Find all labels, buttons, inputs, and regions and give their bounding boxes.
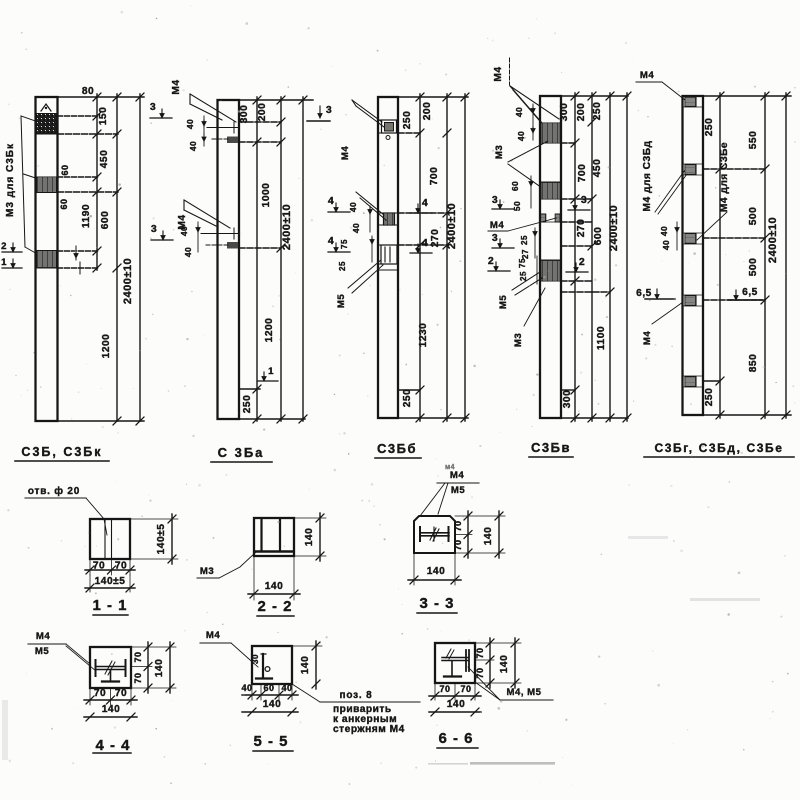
embedded plate 2 post C3Bg [685, 165, 696, 175]
svg-text:250: 250 [704, 118, 715, 137]
dimension column 60/60/1190 post C3B [96, 94, 98, 270]
svg-text:4: 4 [328, 235, 334, 247]
svg-text:300: 300 [562, 390, 573, 409]
dim 140+-5 section 1-1 right [130, 518, 178, 520]
svg-text:70: 70 [93, 561, 105, 572]
svg-text:300: 300 [239, 105, 250, 124]
dimension column B post C3Ba [280, 97, 282, 421]
section cut 4 left upper post C3Bb [328, 211, 350, 213]
svg-text:250: 250 [592, 102, 603, 121]
leader mid anchor post C3Bb [356, 192, 384, 215]
svg-text:250: 250 [402, 111, 413, 130]
svg-text:70: 70 [475, 667, 485, 678]
section cut 4 right upper post C3Bb [410, 212, 432, 214]
leader M5 post C3Bv [512, 272, 540, 290]
anchor end plate mid post C3Ba [227, 242, 238, 249]
svg-text:600: 600 [593, 227, 604, 246]
dim 140 section 6-6 right [475, 642, 521, 644]
section 3-3 body [414, 516, 455, 553]
mark 6,5 left post C3Bg [645, 298, 675, 300]
svg-text:200: 200 [422, 102, 433, 121]
extension lines post C3Bv right [561, 95, 628, 97]
svg-text:6,5: 6,5 [636, 288, 652, 299]
svg-text:60: 60 [263, 683, 274, 693]
beam section 6-6 [442, 657, 468, 659]
svg-text:40: 40 [185, 119, 195, 129]
svg-text:М4: М4 [206, 630, 220, 641]
svg-text:С3Бв: С3Бв [531, 440, 571, 455]
mini dims 40/40 post C3Bb [369, 206, 371, 232]
dimension column C post C3Bv [609, 93, 611, 421]
svg-text:75: 75 [340, 239, 349, 249]
dimension column A post C3Bv [574, 93, 576, 421]
section cut 4 right lower post C3Bb [410, 252, 432, 254]
svg-text:М4: М4 [36, 631, 50, 642]
hole f20 lines [104, 519, 106, 559]
svg-text:6 - 6: 6 - 6 [438, 730, 473, 747]
section 6-6 body [435, 643, 475, 683]
svg-text:40: 40 [179, 226, 189, 236]
anchor channel lower post C3Bb [381, 245, 397, 264]
dim 140 section 5-5 bottom [242, 711, 298, 713]
section 4-4 body [90, 647, 131, 688]
dimension column C post C3Bg [785, 93, 787, 418]
svg-text:60: 60 [510, 181, 520, 191]
svg-text:270: 270 [430, 229, 441, 248]
svg-text:2400±10: 2400±10 [608, 205, 620, 251]
channel section 5-5 [262, 654, 264, 678]
anchor box mid post C3Bb [384, 213, 395, 225]
dim 140 section 3-3 right [455, 515, 505, 517]
svg-text:140: 140 [447, 699, 466, 710]
svg-text:80: 80 [82, 86, 94, 97]
svg-text:140±5: 140±5 [95, 576, 126, 587]
section cut 1 bottom post C3Ba [258, 380, 278, 382]
mini dims 40/40 post C3Bg [676, 222, 678, 250]
svg-text:140: 140 [263, 699, 282, 710]
svg-text:2: 2 [488, 255, 494, 267]
section cut 4 left lower post C3Bb [328, 251, 350, 253]
svg-text:С 3Ба: С 3Ба [218, 445, 265, 460]
hatched band 1 post C3Bv [541, 123, 561, 143]
dimension column C post C3Bb [464, 94, 466, 421]
svg-text:1200: 1200 [264, 318, 275, 343]
svg-text:3: 3 [492, 194, 498, 206]
svg-text:70: 70 [133, 651, 143, 662]
svg-text:150: 150 [98, 107, 109, 126]
svg-text:50: 50 [512, 201, 522, 211]
dimension column D post C3Bv [626, 93, 628, 421]
svg-text:1000: 1000 [261, 183, 272, 208]
section cut 3 mark between posts [307, 120, 330, 122]
dimension column A post C3Bb [419, 94, 421, 421]
svg-text:М4 для С3Бд: М4 для С3Бд [642, 140, 653, 211]
section 5-5 body [252, 646, 292, 684]
leader poz 8 section 5-5 [292, 684, 320, 702]
svg-text:450: 450 [592, 159, 603, 178]
svg-text:60: 60 [60, 164, 70, 175]
mini dims 75/25 lower post C3Bv [536, 256, 538, 284]
post C3B lifting loop notch [41, 104, 51, 111]
svg-text:отв. ф 20: отв. ф 20 [28, 485, 80, 497]
dim 140 section 5-5 right [292, 645, 322, 647]
svg-text:40: 40 [516, 131, 526, 141]
svg-text:60: 60 [59, 198, 69, 209]
svg-text:М4: М4 [450, 470, 464, 481]
svg-text:550: 550 [748, 131, 759, 150]
svg-text:200: 200 [257, 103, 268, 122]
embedded plate 5 post C3Bg [685, 377, 696, 387]
post C3Ba outline [218, 100, 240, 419]
svg-text:700: 700 [429, 167, 440, 186]
svg-text:6,5: 6,5 [742, 287, 758, 298]
svg-text:27: 27 [521, 249, 530, 259]
svg-text:75: 75 [518, 258, 527, 268]
svg-text:70: 70 [115, 688, 127, 699]
svg-text:450: 450 [99, 150, 110, 169]
dim 140 section 3-3 bottom [413, 553, 415, 585]
svg-text:С3Бб: С3Бб [377, 441, 417, 456]
svg-text:70: 70 [453, 520, 463, 531]
svg-text:М4: М4 [493, 66, 504, 81]
svg-text:40: 40 [514, 107, 524, 117]
dimension column 150/450/600/1200 post C3B [116, 94, 118, 421]
svg-text:3 - 3: 3 - 3 [419, 595, 454, 612]
svg-text:40: 40 [661, 240, 671, 250]
svg-text:500: 500 [748, 207, 759, 226]
extension lines post C3B right [58, 96, 145, 98]
dim 140 section 6-6 bottom [429, 711, 481, 713]
svg-text:40: 40 [281, 683, 292, 693]
svg-text:М4: М4 [642, 331, 653, 345]
svg-text:м4: м4 [445, 464, 455, 471]
svg-text:40: 40 [183, 247, 193, 257]
svg-text:1: 1 [1, 257, 7, 268]
dims 70/70 section 6-6 bottom [434, 683, 436, 700]
dimension column 2400 post C3B [139, 94, 141, 421]
embedded plate 3 post C3Bg [685, 234, 696, 244]
svg-text:250: 250 [402, 389, 413, 408]
leader M5 post C3Bb [348, 260, 381, 288]
svg-text:М5: М5 [498, 295, 509, 309]
svg-text:М3: М3 [494, 145, 505, 159]
embedded plate 1 post C3Bg [685, 97, 696, 107]
mini dims 25/25 post C3Bv [534, 228, 536, 258]
svg-text:140: 140 [265, 581, 284, 592]
svg-text:5 - 5: 5 - 5 [253, 733, 288, 750]
svg-text:М3 для С3Бк: М3 для С3Бк [5, 143, 16, 217]
post C3B hatched band 1 [37, 114, 57, 135]
svg-text:М4, М5: М4, М5 [507, 687, 542, 698]
svg-text:1200: 1200 [101, 334, 112, 359]
svg-text:1: 1 [268, 366, 274, 377]
svg-text:1 - 1: 1 - 1 [92, 597, 127, 614]
svg-text:250: 250 [704, 388, 715, 407]
dim 70/70 section 1-1 [89, 559, 91, 575]
weld hash section 3-3 [430, 527, 439, 541]
extension lines post C3Bb right [398, 96, 468, 98]
mini dims 75/25 post C3Bb [371, 236, 373, 262]
hatched band 3 post C3Bv [541, 260, 561, 281]
svg-text:70: 70 [133, 672, 143, 683]
svg-text:2400±10: 2400±10 [767, 217, 779, 263]
section 1-1 body [90, 519, 130, 559]
svg-text:70: 70 [453, 539, 463, 550]
svg-text:140: 140 [102, 704, 121, 715]
svg-text:4 - 4: 4 - 4 [95, 737, 130, 754]
svg-text:140: 140 [300, 656, 311, 675]
extension lines post C3Ba right [239, 99, 313, 101]
anchor end plate top post C3Ba [227, 137, 238, 144]
svg-text:поз. 8: поз. 8 [340, 690, 373, 701]
dims 70/70 section 4-4 right [131, 666, 152, 668]
svg-text:стержням М4: стержням М4 [333, 724, 405, 735]
svg-text:25: 25 [520, 235, 529, 245]
svg-text:700: 700 [577, 164, 588, 183]
dim 140 section 4-4 right [131, 646, 176, 648]
post C3B hatched band 2 [37, 177, 57, 193]
svg-text:М5: М5 [35, 646, 49, 657]
section cut 3 left post C3Bv [492, 208, 514, 210]
svg-text:2: 2 [1, 241, 7, 252]
post C3Bv outline [540, 96, 561, 418]
leader M4 post C3Bb [352, 100, 382, 122]
mark 6,5 right post C3Bg [728, 299, 762, 301]
dim 140+-5 section 1-1 bottom [89, 575, 91, 592]
svg-text:40: 40 [348, 202, 358, 212]
dims 70/70 section 6-6 right [475, 659, 494, 661]
dimension column C post C3Ba [302, 97, 304, 421]
section cut 2 right post C3Bv [566, 271, 588, 273]
svg-text:140±5: 140±5 [156, 524, 167, 555]
section cut 3 left lower post C3Bv [492, 247, 514, 249]
svg-text:140: 140 [154, 659, 165, 678]
section cut 3 left upper post C3Ba [150, 117, 172, 119]
anchor plate line top post C3Ba [207, 127, 239, 129]
svg-text:М4: М4 [490, 220, 504, 231]
svg-text:70: 70 [439, 684, 450, 694]
mini dims 40/40 post C3Bv [532, 104, 534, 140]
dims 70/70 section 4-4 bottom [89, 688, 91, 705]
svg-text:3: 3 [151, 223, 157, 235]
extension lines post C3Bg right [703, 95, 791, 97]
svg-text:2400±10: 2400±10 [446, 203, 458, 249]
leader fan top post C3Bv [509, 58, 511, 85]
svg-text:140: 140 [483, 527, 494, 546]
svg-text:25: 25 [519, 271, 528, 281]
weld hash section 4-4 [105, 661, 115, 675]
svg-text:270: 270 [576, 219, 587, 238]
svg-text:3: 3 [150, 101, 156, 113]
section cut 2 left post C3Bv [488, 270, 510, 272]
anchor M4 leader top [190, 94, 236, 122]
svg-text:140: 140 [304, 528, 315, 547]
svg-text:2 - 2: 2 - 2 [257, 598, 292, 615]
svg-text:2400±10: 2400±10 [122, 258, 134, 304]
svg-text:2400±10: 2400±10 [281, 204, 293, 250]
svg-text:70: 70 [94, 688, 106, 699]
dim 140 section 4-4 bottom [84, 716, 137, 718]
post C3Bb outline [378, 97, 398, 418]
svg-text:М4: М4 [640, 70, 654, 81]
svg-text:3: 3 [492, 232, 498, 244]
svg-text:300: 300 [559, 103, 570, 122]
svg-text:3: 3 [326, 104, 332, 116]
section cut 3 right post C3Bv [568, 209, 590, 211]
anchor box top post C3Bb [382, 120, 397, 133]
svg-text:М3: М3 [513, 333, 524, 347]
post C3B outline [36, 97, 58, 421]
section cut 3 left lower post C3Ba [151, 239, 173, 241]
svg-text:40: 40 [659, 226, 669, 236]
dims 40/60/40 section 5-5 [251, 684, 253, 700]
svg-text:40: 40 [188, 141, 198, 151]
svg-text:25: 25 [338, 261, 347, 271]
dimension column A post C3Bg [719, 93, 721, 418]
svg-text:250: 250 [242, 395, 253, 414]
hatched band 2 post C3Bv [541, 182, 561, 199]
beam section 3-3 [420, 532, 449, 534]
svg-text:С3Бг, С3Бд, С3Бе: С3Бг, С3Бд, С3Бе [654, 441, 783, 455]
dimension column B post C3Bg [764, 93, 766, 418]
post C3B hatched band 3 [37, 251, 57, 269]
svg-text:200: 200 [576, 103, 587, 122]
dims 70/70 section 3-3 right [455, 534, 472, 536]
svg-text:1100: 1100 [596, 326, 607, 350]
dim 140 section 2-2 right [294, 517, 326, 519]
svg-text:70: 70 [115, 561, 127, 572]
svg-text:4: 4 [328, 195, 334, 207]
svg-text:М5: М5 [451, 485, 465, 496]
small ticks near band 3 [75, 246, 77, 260]
anchor M4 leader mid post C3Ba [184, 200, 230, 228]
svg-text:М4: М4 [171, 79, 182, 94]
svg-text:70: 70 [460, 684, 471, 694]
anchor plate line mid post C3Ba [201, 233, 239, 235]
svg-text:4: 4 [422, 197, 428, 209]
svg-text:500: 500 [748, 258, 759, 277]
mini dims 60/50 post C3Bv [530, 176, 532, 208]
svg-text:140: 140 [427, 566, 446, 577]
svg-text:140: 140 [499, 655, 510, 674]
mini dim 40/40 mid post C3Ba [197, 222, 199, 252]
svg-text:М5: М5 [336, 294, 347, 308]
section 2-2 body [254, 518, 294, 556]
section cut mark 2 left [2, 251, 22, 253]
embedded plate 4 post C3Bg [685, 296, 696, 306]
leader bracket M3 to bands [21, 116, 25, 247]
dimension column B post C3Bv [591, 93, 593, 421]
weld hash section 6-6 [446, 649, 454, 659]
post C3Bg outline [683, 96, 704, 415]
dimension column B post C3Bb [446, 94, 448, 421]
svg-text:3: 3 [581, 194, 587, 206]
anchor plates M4 post C3Bv [541, 214, 546, 222]
mini dim 40/40 top post C3Ba [203, 116, 205, 146]
channel bars section 2-2 [260, 520, 262, 551]
svg-text:40: 40 [351, 223, 361, 233]
svg-text:40: 40 [241, 683, 252, 693]
dim 140 section 2-2 bottom [253, 556, 255, 600]
dimension column A post C3Ba [256, 97, 258, 421]
section cut mark 1 left [2, 267, 22, 269]
svg-text:С3Б, С3Бк: С3Б, С3Бк [21, 445, 102, 459]
beam section 4-4 [96, 666, 125, 668]
svg-text:70: 70 [475, 647, 485, 658]
svg-text:2: 2 [579, 256, 585, 268]
svg-text:600: 600 [100, 211, 111, 230]
svg-text:М3: М3 [200, 566, 214, 577]
svg-text:1230: 1230 [418, 323, 429, 348]
svg-text:М4: М4 [340, 146, 351, 160]
svg-text:850: 850 [748, 354, 759, 373]
